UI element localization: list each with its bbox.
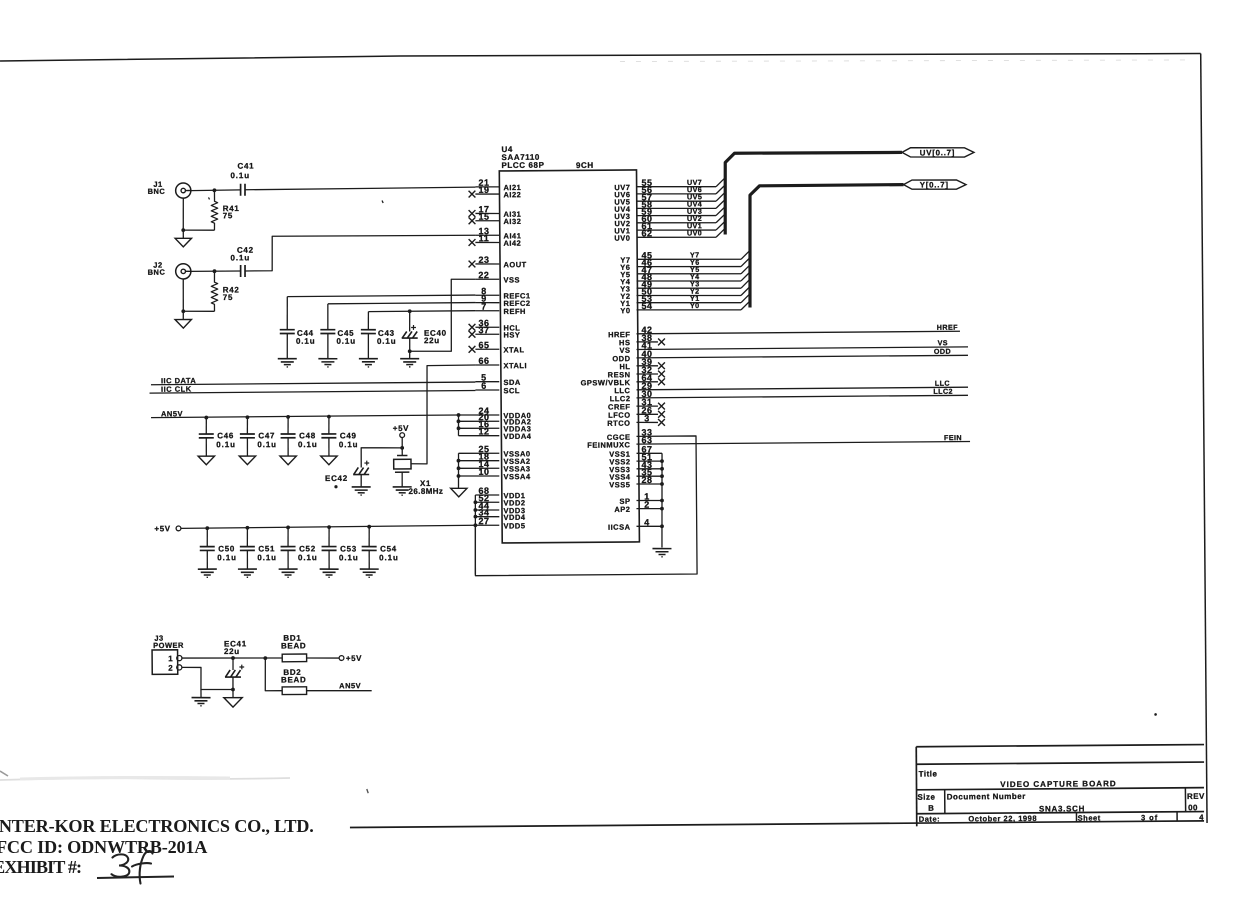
wire EC42 branch (361, 447, 402, 467)
wire R42 bottom to J2 ground node (183, 310, 214, 313)
svg-text:POWER: POWER (153, 641, 184, 650)
U4 pin 54 Y0 with net label Y0 (637, 309, 742, 311)
scan speck near stamp (367, 789, 368, 793)
svg-text:0.1u: 0.1u (339, 440, 359, 449)
junction J2 ground node (181, 309, 185, 313)
junction EC41 top (231, 656, 235, 660)
ground C46 (triangle) (198, 456, 214, 465)
U4 pin 13 AI41 (475, 234, 499, 236)
U4 pin 66 XTALI (475, 364, 499, 366)
junction AN5V/C46 (204, 416, 208, 420)
svg-text:PLCC 68P: PLCC 68P (501, 161, 544, 170)
svg-text:XTAL: XTAL (503, 345, 524, 354)
svg-text:BNC: BNC (148, 268, 166, 277)
wire R41 bottom to J1 ground node (183, 229, 214, 232)
svg-text:BNC: BNC (148, 187, 166, 196)
IC U4 SAA7110 PLCC 68P body (499, 170, 639, 543)
U4 pin 5 SDA (475, 380, 499, 382)
ground C52 (hatched) (279, 568, 298, 570)
svg-text:October 22, 1998: October 22, 1998 (968, 814, 1037, 824)
U4 pin 6 SCL (475, 389, 499, 391)
ferrite bead BD1 (282, 654, 306, 662)
svg-text:6: 6 (481, 381, 487, 391)
bus Y to Y[0..7] (749, 185, 904, 308)
svg-text:BEAD: BEAD (281, 675, 307, 684)
capacitor C47 0.1u (246, 417, 248, 434)
svg-text:0.1u: 0.1u (217, 553, 237, 562)
svg-text:C53: C53 (340, 544, 357, 553)
svg-text:+5V: +5V (346, 654, 362, 663)
ground C44 (hatched) (278, 358, 297, 360)
wire BD2 branch down (265, 658, 282, 691)
ground EC42 (hatched) (352, 486, 371, 488)
svg-text:SNA3.SCH: SNA3.SCH (1039, 804, 1085, 813)
wire C41 to U4 pin 21 (245, 187, 475, 190)
polarity + EC42 (364, 462, 369, 464)
junction +5V/C50 (205, 526, 209, 530)
U4 pin 60 UV2 with net label UV2 (637, 222, 717, 223)
junction BD2 branch (263, 656, 267, 660)
wire J3 pin1 to BD1 (182, 657, 282, 658)
capacitor C44 0.1u (286, 297, 289, 330)
U4 pin 68 VDD1 (475, 494, 499, 496)
svg-text:22: 22 (478, 270, 489, 280)
net +5V rail to VDD pins (181, 525, 475, 528)
U4 pin 52 VDD2 (475, 501, 499, 503)
capacitor C46 0.1u (205, 418, 207, 434)
svg-text:FEIN: FEIN (944, 433, 962, 442)
svg-text:ODD: ODD (934, 347, 951, 356)
wire J3 pin2 to ground (182, 667, 233, 690)
ground C53 (hatched) (320, 568, 339, 570)
scan speck near R41 (209, 197, 210, 199)
junction J1/R41 (213, 188, 217, 192)
U4 pin 48 Y4 with net label Y4 (636, 280, 741, 282)
svg-text:7: 7 (481, 302, 487, 312)
ground X1 (hatched) (393, 486, 412, 488)
svg-text:10: 10 (478, 467, 489, 477)
wire FEINMUXC pin63 to FEIN (636, 441, 970, 444)
svg-text:INTER-KOR ELECTRONICS CO., LTD: INTER-KOR ELECTRONICS CO., LTD. (0, 816, 314, 836)
bus UV to UV[0..7] (725, 152, 903, 235)
connector J2 BNC (176, 264, 191, 279)
ground U4 digital (hatched) (652, 547, 671, 549)
crystal X1 top lead (397, 454, 407, 456)
junction EC40 bottom / VSS return (408, 349, 412, 353)
svg-text:12: 12 (478, 426, 489, 436)
U4 pin 10 VSSA4 (458, 475, 499, 478)
svg-text:1: 1 (168, 654, 173, 663)
svg-text:C54: C54 (380, 544, 397, 553)
U4 pin 37 HSY (475, 333, 499, 335)
node UV[0..7] bus label (902, 147, 974, 157)
junction J1 ground node (181, 228, 185, 232)
svg-text:Date:: Date: (919, 815, 941, 824)
svg-text:Y0: Y0 (690, 301, 700, 310)
svg-text:AN5V: AN5V (339, 681, 361, 690)
svg-text:22u: 22u (424, 336, 440, 345)
wire J2 shield down (182, 279, 184, 311)
U4 pin 65 XTAL (475, 348, 499, 350)
U4 pin 8 REFC1 (475, 294, 499, 296)
svg-text:AP2: AP2 (614, 505, 630, 514)
ground J1 (triangle) (182, 230, 184, 238)
wire C42 to U4 pin 13 (245, 235, 476, 271)
U4 pin 20 VDDA2 (458, 420, 499, 423)
capacitor C49 0.1u (328, 417, 330, 434)
svg-text:3 of: 3 of (1141, 813, 1158, 822)
svg-text:REFH: REFH (503, 307, 525, 316)
junction EC41 bottom (231, 688, 235, 692)
U4 pin 15 AI32 (475, 220, 499, 222)
svg-text:75: 75 (223, 293, 233, 302)
svg-text:0.1u: 0.1u (257, 553, 277, 562)
scan speck near title block (1154, 713, 1157, 716)
ground C49 (triangle) (321, 456, 337, 465)
svg-text:75: 75 (223, 211, 233, 220)
svg-text:0.1u: 0.1u (379, 553, 399, 562)
svg-text:EC42: EC42 (325, 474, 348, 483)
svg-text:23: 23 (478, 255, 489, 265)
capacitor C45 0.1u (327, 304, 329, 330)
ground EC41 (triangle) (224, 698, 242, 708)
svg-text:REV: REV (1187, 792, 1205, 801)
resistor R42 75 (211, 271, 218, 311)
polarity + EC40 (411, 326, 416, 328)
svg-text:UV0: UV0 (687, 228, 702, 237)
capacitor C43 0.1u (367, 312, 369, 330)
junction +5V/C52 (286, 526, 290, 530)
resistor R41 75 (211, 190, 218, 230)
svg-text:Y[0..7]: Y[0..7] (920, 180, 949, 189)
ferrite bead BD2 (282, 687, 306, 695)
power +5V terminal at X1 (400, 433, 405, 438)
ground C54 (hatched) (360, 568, 379, 570)
svg-text:54: 54 (641, 301, 652, 311)
U4 pin 50 Y2 with net label Y2 (636, 295, 741, 297)
svg-text:66: 66 (478, 356, 489, 366)
U4 pin 14 VSSA3 (459, 467, 500, 470)
svg-text:27: 27 (478, 516, 489, 526)
U4 pin 49 Y3 with net label Y3 (637, 287, 742, 289)
svg-text:26.8MHz: 26.8MHz (408, 487, 443, 496)
capacitor EC41 22u (electrolytic) (232, 658, 234, 670)
U4 pin 46 Y6 with net label Y6 (636, 266, 741, 268)
svg-text:Document Number: Document Number (947, 792, 1026, 802)
wire VSSA bus vertical (457, 453, 460, 488)
svg-text:0.1u: 0.1u (216, 440, 236, 449)
wire VDD bus vertical (475, 495, 476, 575)
junction J2/R42 (213, 269, 217, 273)
capacitor C51 0.1u (246, 528, 248, 547)
wire pin2 leg to ground (200, 690, 202, 698)
U4 pin 62 UV0 with net label UV0 (637, 237, 717, 238)
U4 pin 18 VSSA2 (458, 459, 499, 462)
U4 pin 45 Y7 with net label Y7 (637, 258, 742, 260)
svg-text:0.1u: 0.1u (230, 253, 250, 262)
exhibit underline (97, 877, 174, 879)
U4 pin 44 VDD3 (475, 509, 499, 511)
svg-text:C46: C46 (217, 431, 234, 440)
svg-text:VDD5: VDD5 (503, 521, 525, 530)
node Y[0..7] bus label (903, 180, 966, 190)
U4 pin 55 UV7 with net label UV7 (637, 186, 717, 187)
svg-text:UV0: UV0 (614, 234, 630, 243)
svg-text:IICSA: IICSA (608, 523, 631, 532)
junction AN5V/C49 (327, 415, 331, 419)
wire VSS1-VSS5 SP AP2 IICSA ground bus (661, 453, 663, 547)
U4 pin 19 AI22 (475, 193, 499, 195)
svg-text:AN5V: AN5V (161, 409, 183, 418)
handwritten exhibit number 3f (112, 854, 130, 876)
ground C45 (hatched) (318, 358, 337, 360)
ground C47 (triangle) (239, 456, 255, 465)
svg-text:Sheet: Sheet (1078, 813, 1101, 822)
U4 pin 61 UV1 with net label UV1 (636, 229, 716, 230)
wire BD2 to AN5V (307, 690, 372, 691)
svg-text:C51: C51 (258, 544, 275, 553)
svg-text:FEINMUXC: FEINMUXC (587, 440, 630, 449)
U4 pin 12 VDDA4 (458, 434, 499, 437)
svg-text:+5V: +5V (393, 424, 409, 433)
ground C51 (hatched) (238, 568, 257, 570)
svg-text:C50: C50 (218, 544, 235, 553)
svg-text:0.1u: 0.1u (298, 553, 318, 562)
U4 pin 34 VDD4 (475, 515, 499, 517)
power terminal +5V output (339, 656, 344, 661)
U4 pin 59 UV3 with net label UV3 (636, 215, 716, 216)
svg-text:Size: Size (917, 793, 935, 802)
connector J1 BNC (176, 183, 191, 198)
crystal X1 bottom lead (395, 471, 409, 473)
wire J2 to C42 (191, 270, 241, 272)
svg-text:VIDEO CAPTURE BOARD: VIDEO CAPTURE BOARD (1000, 779, 1116, 789)
junction AN5V/C48 (286, 415, 290, 419)
svg-text:HREF: HREF (937, 323, 958, 332)
crystal X1 26.8MHz body (394, 459, 411, 469)
svg-text:VDDA4: VDDA4 (503, 432, 531, 441)
wire REFC2 to C45 (328, 303, 476, 304)
U4 pin 16 VDDA3 (459, 427, 500, 430)
svg-text:UV[0..7]: UV[0..7] (920, 148, 955, 157)
svg-text:0.1u: 0.1u (257, 440, 277, 449)
svg-text:65: 65 (478, 340, 489, 350)
svg-text:C48: C48 (299, 431, 316, 440)
U4 pin 53 Y1 with net label Y1 (637, 302, 742, 304)
power +5V terminal left (176, 526, 181, 531)
wire REFH to C43/EC40 (368, 310, 475, 313)
U4 pin 27 VDD5 (475, 524, 499, 526)
junction +5V/C51 (245, 526, 249, 530)
U4 pin 9 REFC2 (475, 301, 499, 303)
svg-text:0.1u: 0.1u (230, 171, 250, 180)
U4 pin 57 UV5 with net label UV5 (637, 201, 717, 202)
svg-text:0.1u: 0.1u (298, 440, 318, 449)
U4 pin 56 UV6 with net label UV6 (636, 193, 716, 194)
junction +5V/C53 (327, 525, 331, 529)
capacitor C52 0.1u (287, 527, 289, 546)
capacitor C41 (239, 184, 241, 196)
svg-text:9CH: 9CH (576, 161, 594, 170)
svg-text:15: 15 (478, 212, 489, 222)
U4 pin 24 VDDA0 (459, 414, 500, 417)
junction +5V/EC42 (400, 446, 404, 450)
wire VDDA bus vertical (457, 415, 459, 436)
capacitor EC42 22u (electrolytic) (354, 467, 359, 474)
U4 pin 36 HCL (475, 326, 499, 328)
U4 pin 21 AI21 (475, 186, 499, 188)
svg-text:37: 37 (478, 325, 489, 335)
title block frame (916, 744, 1204, 746)
U4 pin 47 Y5 with net label Y5 (637, 273, 742, 275)
svg-text:VSS: VSS (503, 275, 520, 284)
junction AN5V/C47 (246, 415, 250, 419)
capacitor C48 0.1u (287, 417, 289, 434)
scan smudge bottom left (0, 778, 290, 780)
wire J1 shield down (182, 198, 185, 230)
svg-text:RTCO: RTCO (607, 419, 630, 428)
svg-text:0.1u: 0.1u (296, 337, 316, 346)
svg-text:XTALI: XTALI (503, 361, 527, 370)
svg-text:VSSA4: VSSA4 (503, 472, 530, 481)
svg-text:B: B (928, 804, 934, 813)
U4 pin 7 REFH (475, 310, 499, 312)
wire REFC1 to C44 (287, 295, 475, 297)
svg-text:AI32: AI32 (503, 217, 521, 226)
U4 pin 22 VSS (475, 278, 499, 280)
svg-text:AI42: AI42 (503, 239, 521, 248)
U4 pin 58 UV4 with net label UV4 (637, 208, 717, 209)
ground C50 (hatched) (198, 568, 217, 570)
wire EC41 to ground (232, 689, 234, 697)
svg-text:0.1u: 0.1u (377, 337, 397, 346)
polarity + EC41 (239, 666, 244, 668)
svg-text:62: 62 (641, 228, 652, 238)
svg-text:2: 2 (168, 664, 173, 673)
svg-text:SCL: SCL (503, 386, 520, 395)
U4 pin 23 AOUT (475, 263, 499, 265)
svg-text:LLC2: LLC2 (933, 387, 953, 396)
capacitor C53 0.1u (328, 527, 330, 547)
wire CGCE pin33 loop to +5V/VDD rail (474, 436, 697, 576)
svg-text:+5V: +5V (154, 524, 170, 533)
capacitor C50 0.1u (206, 528, 208, 546)
net IIC DATA to SDA (151, 382, 475, 385)
capacitor C42 (240, 265, 242, 277)
svg-text:0.1u: 0.1u (336, 337, 356, 346)
svg-text:19: 19 (478, 185, 489, 195)
scan smudge streak (620, 57, 1190, 64)
ground C43 (hatched) (359, 358, 378, 360)
scan speck mid sheet (382, 200, 383, 203)
ground J3 pin2 (hatched) (192, 696, 211, 698)
svg-text:FCC ID: ODNWTRB-201A: FCC ID: ODNWTRB-201A (0, 837, 207, 857)
label EC42 asterisk (334, 485, 337, 488)
svg-text:Title: Title (919, 769, 938, 778)
capacitor EC40 22u (electrolytic) (409, 311, 411, 331)
svg-text:HSY: HSY (503, 330, 520, 339)
svg-text:EXHIBIT #:: EXHIBIT #: (0, 857, 81, 877)
junction REFH/EC40 (408, 309, 412, 313)
svg-text:C49: C49 (340, 431, 357, 440)
ground J2 (triangle) (182, 311, 184, 319)
svg-text:VSS5: VSS5 (609, 480, 630, 489)
wire EC40 to ground (409, 351, 411, 358)
svg-text:C41: C41 (237, 161, 254, 170)
net AN5V rail to VDDA pins (151, 415, 458, 418)
svg-text:IIC CLK: IIC CLK (161, 384, 192, 393)
svg-text:11: 11 (479, 233, 490, 243)
capacitor C54 0.1u (368, 527, 370, 547)
svg-text:C47: C47 (258, 431, 275, 440)
svg-text:22u: 22u (224, 647, 240, 656)
ground VSSA (triangle) (451, 488, 467, 497)
svg-text:0.1u: 0.1u (339, 553, 359, 562)
U4 pin 11 AI42 (475, 241, 499, 243)
svg-text:Y0: Y0 (620, 306, 630, 315)
svg-text:C52: C52 (299, 544, 316, 553)
svg-text:00: 00 (1188, 803, 1198, 812)
wire X1 output to XTALI (410, 365, 476, 464)
svg-text:AOUT: AOUT (503, 260, 526, 269)
svg-text:BEAD: BEAD (281, 641, 307, 650)
U4 pin 17 AI31 (475, 212, 499, 214)
net IIC CLK to SCL (150, 390, 476, 393)
connector J3 POWER body (152, 650, 178, 675)
svg-text:AI22: AI22 (503, 190, 521, 199)
wire J1 to C41 (191, 189, 241, 192)
wire BD1 to +5V terminal (307, 657, 340, 660)
ground C48 (triangle) (280, 456, 296, 465)
junction +5V/C54 (367, 525, 371, 529)
U4 pin 25 VSSA0 (459, 452, 500, 455)
wire +5V to X1 (401, 438, 403, 456)
wire VSS pin22 to EC40 ground node (409, 279, 476, 352)
ground EC40 (hatched) (400, 358, 419, 360)
